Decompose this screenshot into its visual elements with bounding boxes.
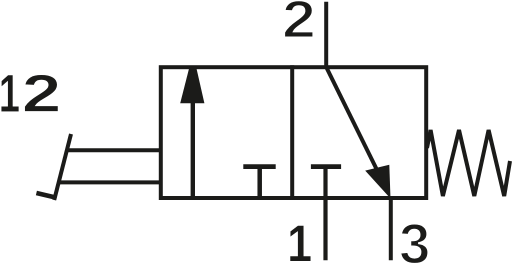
lever end tick (foot) <box>36 193 56 198</box>
label 12 digit 2 <box>24 74 58 111</box>
lever actuator upper stem line <box>67 148 161 152</box>
label 12 digit 1 <box>1 75 19 112</box>
port 1 line (stem of blocked-port T, right square) <box>323 167 327 261</box>
port 2 line <box>324 2 328 69</box>
position divider <box>290 65 294 200</box>
flow arrow 1->2 head <box>180 67 204 103</box>
valve body (two position squares) <box>161 67 426 198</box>
blocked port 3 (left square): T stem <box>257 167 262 199</box>
flow arrow 1->2 (left square) shaft <box>191 95 195 198</box>
label 3 (bottom port) <box>400 224 428 264</box>
flow path 2->3 arrowhead <box>365 165 390 199</box>
flow path 2->3 diagonal shaft <box>326 67 378 172</box>
label 2 (top port) <box>284 0 313 37</box>
lever actuator lower stem line <box>59 180 161 184</box>
spring (return) zigzag <box>427 130 510 196</box>
blocked port 3 T-bar <box>243 164 275 169</box>
port 3 line <box>389 196 393 260</box>
lever slanted line <box>54 134 71 200</box>
label 1 (bottom port) <box>290 225 311 261</box>
blocked port 1 T-bar <box>311 164 341 169</box>
